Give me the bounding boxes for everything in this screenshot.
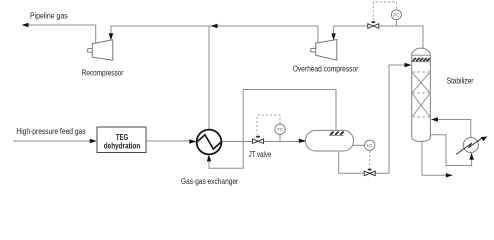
actuator dot level valve xyxy=(368,169,372,171)
arrow bottoms product (right) xyxy=(446,173,453,177)
instrument PC xyxy=(395,20,397,26)
wire exchanger to JT valve to separator xyxy=(222,141,305,143)
column stabilizer xyxy=(412,48,431,141)
wire stabilizer overhead to PCV to overhead compressor xyxy=(334,26,423,48)
arrow into separator xyxy=(299,139,306,143)
svg-text:Pipeline gas: Pipeline gas xyxy=(30,10,68,20)
demister band stabilizer xyxy=(412,55,431,62)
wire recompressor suction header (segment y=26) xyxy=(111,26,318,43)
wire separator overhead recycle loop xyxy=(209,90,336,169)
wire feed gas line xyxy=(13,140,91,142)
arrow up into reboiler xyxy=(469,153,473,160)
packing X section 1 xyxy=(412,73,429,93)
svg-text:Overhead compressor: Overhead compressor xyxy=(293,63,359,73)
signal dashed TC to JT valve xyxy=(257,115,280,135)
arrow into overhead compressor inlet (down) xyxy=(331,33,335,40)
valve JT valve xyxy=(252,139,263,144)
svg-text:Recompressor: Recompressor xyxy=(82,68,124,78)
demister pad separator xyxy=(329,132,344,136)
compressor recompressor xyxy=(87,40,112,61)
wire stabilizer bottoms product xyxy=(422,141,447,175)
arrow into TEG box xyxy=(90,139,97,143)
wire reboiler draw-off xyxy=(430,135,471,166)
arrow pipeline gas (left) xyxy=(22,23,29,27)
valve level control xyxy=(364,171,375,176)
wire TEG box to exchanger xyxy=(146,140,190,142)
arrow vapor return into column (left) xyxy=(431,117,438,121)
valve pressure control xyxy=(368,24,379,29)
packing X section 2 xyxy=(412,94,429,117)
svg-text:Gas-gas exchanger: Gas-gas exchanger xyxy=(181,176,238,186)
exchanger reboiler xyxy=(463,138,478,153)
instrument TC xyxy=(279,135,281,142)
arrow into exchanger left xyxy=(189,139,196,143)
actuator dot JT valve xyxy=(256,136,260,138)
svg-text:PC: PC xyxy=(393,12,400,17)
svg-text:Stabilizer: Stabilizer xyxy=(447,76,474,86)
signal dashed LC to valve xyxy=(369,151,371,168)
svg-text:TC: TC xyxy=(277,127,284,132)
arrow into recompressor inlet (down) xyxy=(109,33,113,40)
wire separator to LC xyxy=(352,144,365,146)
block TEG dehydration xyxy=(97,127,146,153)
svg-text:High-pressure feed gas: High-pressure feed gas xyxy=(16,126,85,136)
reboiler heat arrow xyxy=(456,138,482,155)
wire pipeline gas line xyxy=(27,25,96,43)
wire reboiler vapor return xyxy=(437,120,471,138)
wire separator liquid to LC valve to stabilizer feed xyxy=(339,65,405,173)
compressor overhead compressor xyxy=(311,40,337,61)
arrow up into exchanger bottom xyxy=(207,154,211,161)
svg-text:LC: LC xyxy=(367,143,374,148)
heat-exchanger E1 gas-gas exchanger xyxy=(197,130,222,155)
actuator dot PCV xyxy=(371,21,375,23)
arrow junction flow left xyxy=(211,24,218,28)
svg-text:JT valve: JT valve xyxy=(249,149,272,159)
signal dashed PC to PCV xyxy=(373,2,396,21)
wire exchanger top riser to header xyxy=(208,26,210,129)
arrow into stabilizer feed xyxy=(405,63,412,67)
instrument LC xyxy=(365,140,375,150)
svg-text:dehydration: dehydration xyxy=(104,141,141,150)
vessel separator xyxy=(306,130,354,151)
tray dashed lines stabilizer xyxy=(412,72,430,117)
